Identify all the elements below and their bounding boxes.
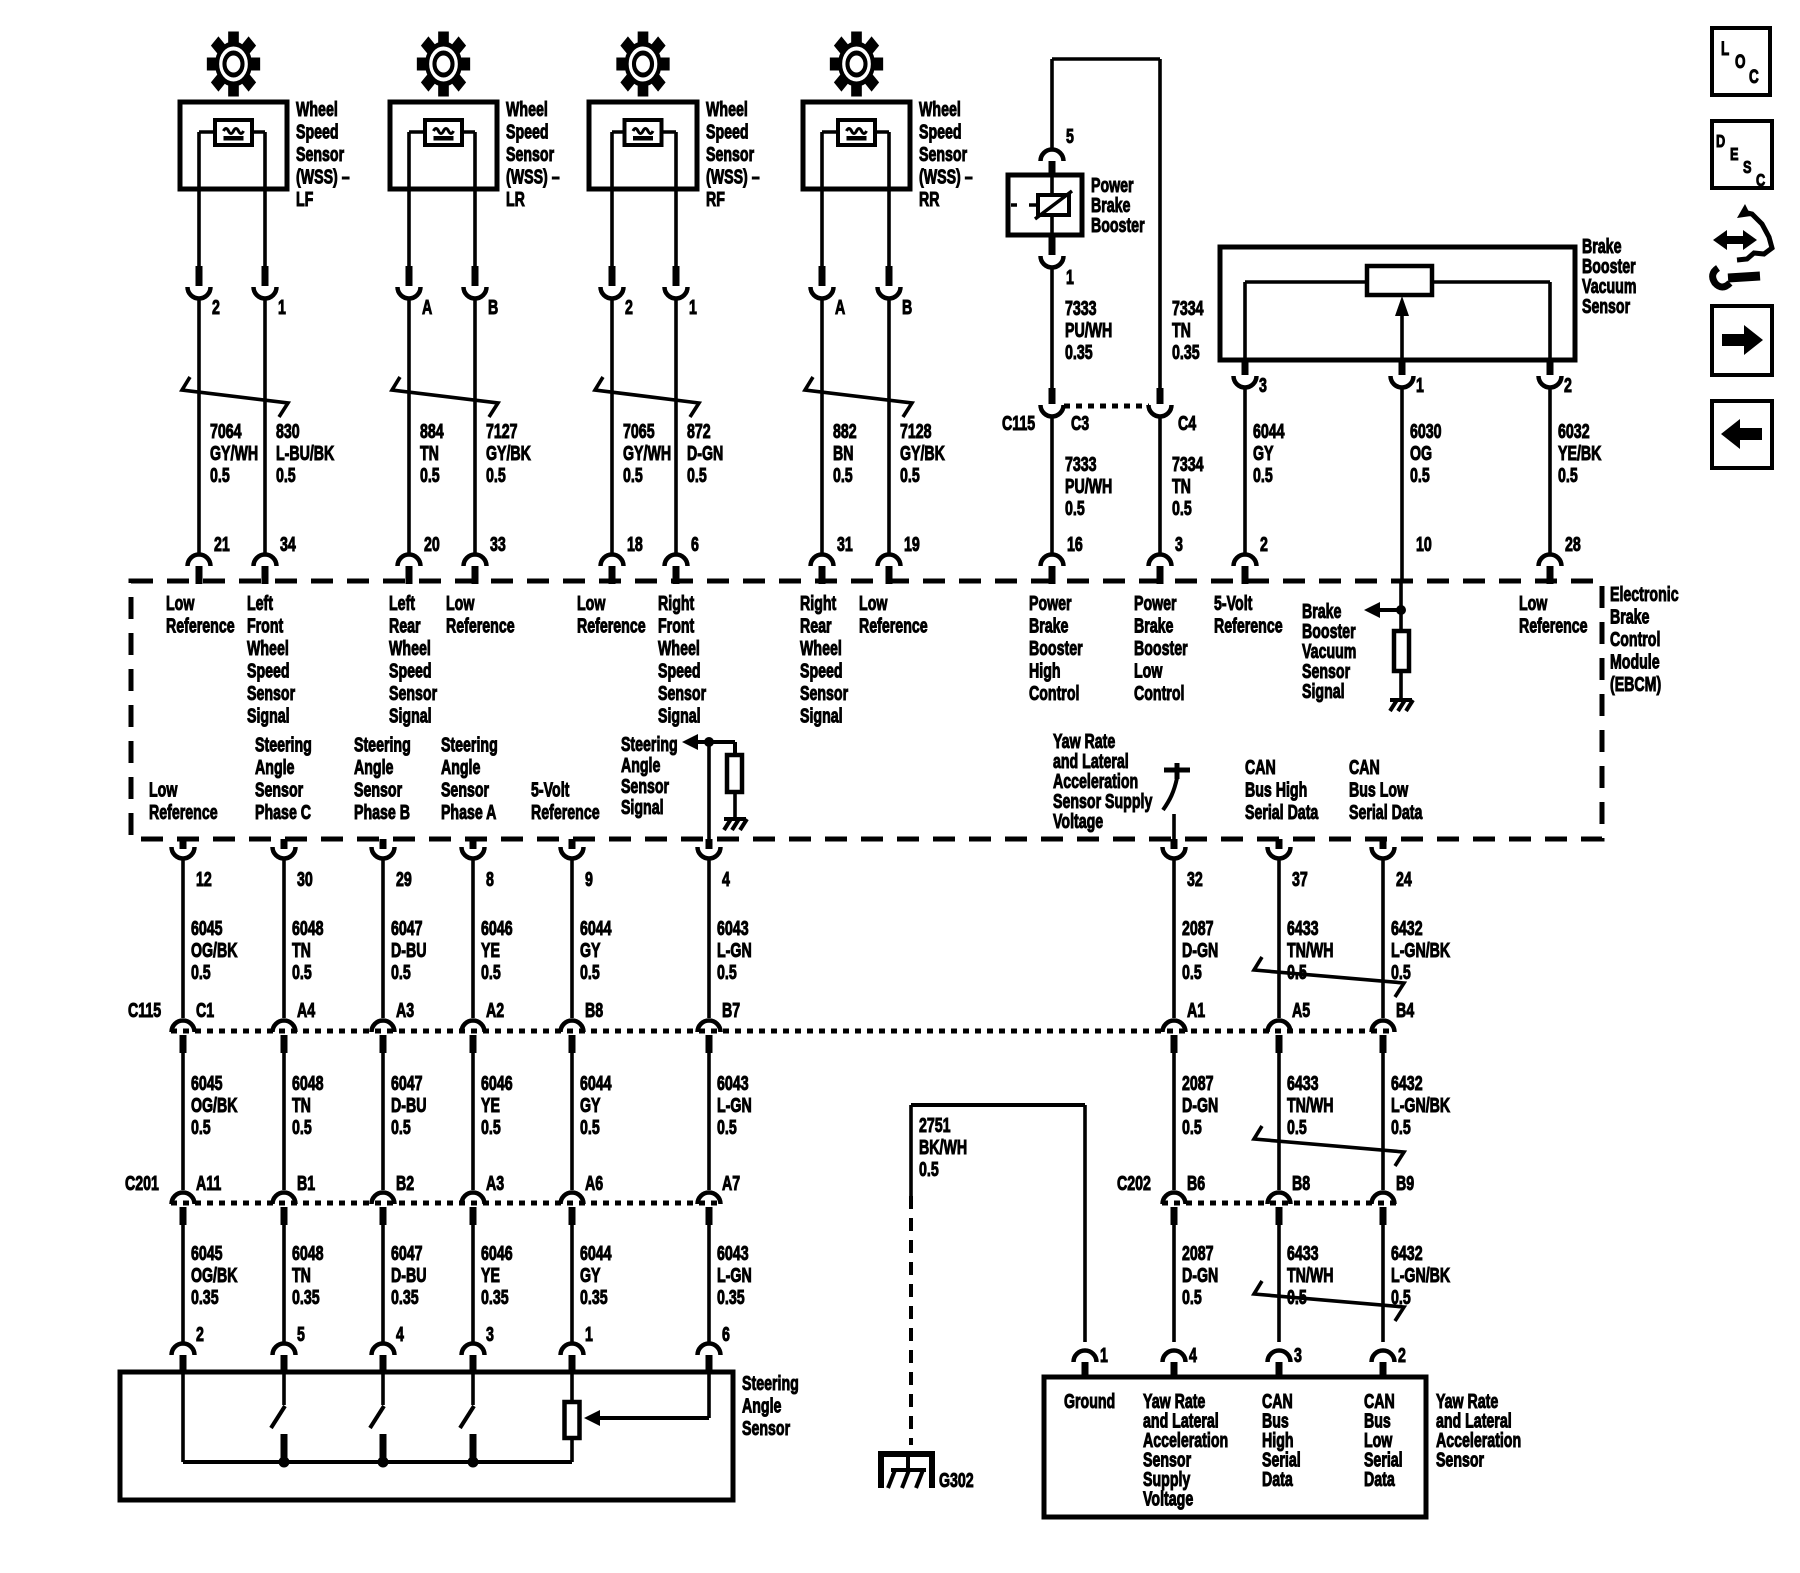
wire EBCM to C115 [570,858,574,1018]
svg-text:(WSS) –: (WSS) – [919,165,973,188]
svg-text:0.5: 0.5 [1287,1116,1307,1139]
wire C201/C202 down [570,1225,574,1342]
wire EBCM to C115 [181,858,185,1018]
svg-text:GY/BK: GY/BK [486,442,531,465]
twisted pair CAN above C115 [1254,957,1404,997]
label C201 [125,1172,159,1195]
connector C115 C3 [1041,388,1064,417]
svg-text:A3: A3 [396,999,414,1022]
svg-text:LR: LR [506,188,525,211]
svg-text:4: 4 [396,1323,404,1346]
wire C201/C202 down [1381,1225,1385,1342]
wire above booster pin 5 [1050,59,1054,149]
svg-text:B2: B2 [396,1172,414,1195]
svg-text:Control: Control [1029,682,1079,705]
connector C115 pin A2 [462,999,505,1053]
wire C201/C202 down [707,1225,711,1342]
svg-text:Right: Right [800,592,836,615]
svg-text:Brake: Brake [1029,614,1069,637]
next page icon [1712,306,1772,375]
svg-text:0.5: 0.5 [420,464,440,487]
EBCM pin 10 feed-through [1416,533,1432,556]
svg-text:0.5: 0.5 [687,464,707,487]
svg-text:6043: 6043 [717,917,749,940]
EBCM yaw rate supply switch symbol [1163,763,1190,839]
svg-text:7333: 7333 [1065,453,1097,476]
svg-text:6433: 6433 [1287,1072,1319,1095]
svg-text:1: 1 [689,296,697,319]
EBCM pin label Steering Phase C [255,733,312,824]
svg-text:TN/WH: TN/WH [1287,939,1334,962]
svg-text:L-GN/BK: L-GN/BK [1391,1094,1451,1117]
svg-text:0.5: 0.5 [1410,464,1430,487]
EBCM pin label Power Brake [1029,592,1083,705]
twisted pair symbol WSS LF [182,377,288,417]
wire C115 to C201/C202 [282,1053,286,1190]
svg-text:Left: Left [389,592,415,615]
svg-text:Speed: Speed [389,659,432,682]
EBCM top pin 31 connector [811,533,854,584]
wire label 6048 TN (row C) [292,1242,324,1309]
wire label 6433 TN/WH (row C) [1287,1242,1334,1309]
svg-text:0.5: 0.5 [292,1116,312,1139]
svg-text:Sensor: Sensor [296,143,344,166]
svg-text:7334: 7334 [1172,453,1204,476]
wire EBCM to C115 [381,858,385,1018]
svg-text:CAN: CAN [1349,756,1380,779]
svg-text:0.5: 0.5 [1391,961,1411,984]
wire label 6048 TN (row A) [292,917,324,984]
svg-text:High: High [1029,659,1061,682]
svg-text:D-BU: D-BU [391,1264,426,1287]
svg-text:882: 882 [833,420,857,443]
svg-text:6043: 6043 [717,1072,749,1095]
svg-text:TN/WH: TN/WH [1287,1094,1334,1117]
svg-text:TN: TN [292,1094,311,1117]
svg-text:21: 21 [214,533,230,556]
connector C201 pin A11 [172,1172,222,1225]
label C115 [128,999,161,1022]
power brake booster label [1091,174,1145,237]
wire from WSS RF to EBCM pin 18 [610,298,614,554]
twisted pair symbol WSS RF [595,377,699,417]
DESC icon [1712,121,1772,191]
svg-text:B: B [902,296,912,319]
svg-text:6048: 6048 [292,917,324,940]
WSS RR label [919,98,973,211]
svg-text:GY: GY [580,1094,601,1117]
svg-text:Sensor: Sensor [255,778,303,801]
svg-text:6432: 6432 [1391,917,1423,940]
connector C115 pin B8 [561,999,604,1053]
svg-text:Reference: Reference [577,614,646,637]
wire label 2087 D-GN (row C) [1182,1242,1218,1309]
wire C115 to C201/C202 [707,1053,711,1190]
svg-text:Left: Left [247,592,273,615]
svg-text:D-GN: D-GN [687,442,723,465]
svg-text:6047: 6047 [391,1072,423,1095]
svg-text:Low: Low [166,592,195,615]
svg-text:32: 32 [1187,868,1203,891]
wire C115 to C201/C202 [181,1053,185,1190]
connector C202 pin B9 [1372,1172,1415,1225]
connector C115 pin C1 [172,999,215,1053]
svg-text:CAN: CAN [1245,756,1276,779]
svg-text:0.35: 0.35 [1172,341,1200,364]
wheel speed sensor (WSS) RR [803,32,910,266]
wire label 6047 D-BU (row B) [391,1072,426,1139]
svg-text:BK/WH: BK/WH [919,1136,967,1159]
svg-text:37: 37 [1292,868,1308,891]
svg-text:Low: Low [577,592,606,615]
svg-text:Front: Front [658,614,694,637]
EBCM top pin 34 connector [254,533,297,584]
svg-text:B: B [488,296,498,319]
svg-text:6: 6 [691,533,699,556]
svg-text:28: 28 [1565,533,1581,556]
svg-text:Sensor: Sensor [1436,1448,1484,1471]
connector C115 C4 [1149,388,1172,417]
wire label 6043 L-GN (row C) [717,1242,752,1309]
svg-text:6032: 6032 [1558,420,1590,443]
svg-text:Low: Low [149,778,178,801]
svg-text:0.5: 0.5 [900,464,920,487]
svg-text:3: 3 [1175,533,1183,556]
svg-text:A7: A7 [722,1172,740,1195]
svg-text:0.5: 0.5 [191,1116,211,1139]
svg-text:B1: B1 [297,1172,315,1195]
svg-text:C201: C201 [125,1172,159,1195]
svg-text:(WSS) –: (WSS) – [506,165,560,188]
EBCM bottom pin 8 connector [462,839,495,891]
svg-text:Reference: Reference [1214,614,1283,637]
svg-text:Sensor: Sensor [742,1417,790,1440]
svg-text:0.5: 0.5 [833,464,853,487]
wire 7333 C3 to EBCM pin 16 [1050,417,1054,554]
EBCM bottom pin 37 connector [1268,839,1308,891]
svg-text:6046: 6046 [481,917,513,940]
vacuum sensor pin 1 connector [1391,360,1425,397]
EBCM label [1610,583,1679,696]
svg-text:Voltage: Voltage [1053,810,1103,833]
wire label 6048 TN (row B) [292,1072,324,1139]
svg-text:Angle: Angle [742,1394,782,1417]
svg-text:Speed: Speed [706,120,749,143]
svg-text:30: 30 [297,868,313,891]
svg-text:Voltage: Voltage [1143,1487,1193,1510]
svg-text:RR: RR [919,188,940,211]
svg-text:6433: 6433 [1287,917,1319,940]
svg-text:6030: 6030 [1410,420,1442,443]
svg-text:Wheel: Wheel [296,98,338,121]
wire 7333 booster to C3 [1050,267,1054,390]
svg-text:Sensor: Sensor [621,775,669,798]
svg-text:6044: 6044 [1253,420,1285,443]
svg-text:Angle: Angle [354,756,394,779]
svg-text:Wheel: Wheel [247,637,289,660]
svg-text:Wheel: Wheel [658,637,700,660]
svg-text:Signal: Signal [800,704,843,727]
svg-text:Reference: Reference [531,801,600,824]
svg-text:TN/WH: TN/WH [1287,1264,1334,1287]
connector C115 pin B7 [698,999,741,1053]
svg-text:Sensor: Sensor [1582,295,1630,318]
svg-text:A5: A5 [1292,999,1310,1022]
svg-text:0.5: 0.5 [580,1116,600,1139]
connector C115 pin A4 [273,999,316,1053]
svg-text:Booster: Booster [1134,637,1188,660]
EBCM top pin 6 connector [665,533,700,584]
EBCM top pin 16 connector [1041,533,1084,584]
EBCM module outline (dashed) [131,581,1602,839]
svg-text:2087: 2087 [1182,917,1214,940]
wire label 7333 PU/WH 0.35 [1065,297,1112,364]
svg-text:1: 1 [585,1323,593,1346]
svg-text:6047: 6047 [391,1242,423,1265]
EBCM steering angle sensor signal circuit [621,733,747,839]
svg-text:TN: TN [292,939,311,962]
svg-text:33: 33 [490,533,506,556]
C115 dotted harness line [171,1029,1395,1034]
wire label 6032 YE/BK [1558,420,1602,487]
svg-text:Power: Power [1134,592,1177,615]
svg-text:D-BU: D-BU [391,1094,426,1117]
svg-text:Data: Data [1364,1468,1395,1491]
svg-text:7334: 7334 [1172,297,1204,320]
svg-text:Speed: Speed [296,120,339,143]
svg-text:A: A [422,296,433,319]
svg-text:Sensor: Sensor [506,143,554,166]
EBCM pin label Low Reference [577,592,646,638]
connector C202 pin B6 [1163,1172,1206,1225]
svg-text:0.35: 0.35 [580,1286,608,1309]
label C115 (top) [1002,412,1035,435]
wire C115 to C201/C202 [1381,1053,1385,1190]
svg-text:Wheel: Wheel [389,637,431,660]
svg-text:B8: B8 [585,999,603,1022]
connector C115 pin A1 [1163,999,1206,1053]
svg-text:0.35: 0.35 [481,1286,509,1309]
svg-text:Steering: Steering [742,1372,799,1395]
svg-text:1: 1 [278,296,286,319]
C201 dotted harness line [171,1201,721,1206]
svg-text:34: 34 [280,533,296,556]
svg-text:6045: 6045 [191,1242,223,1265]
EBCM pin label Left Front [247,592,295,728]
svg-text:B6: B6 [1187,1172,1205,1195]
svg-text:Rear: Rear [800,614,832,637]
booster pin 1 connector [1041,235,1075,289]
wire from WSS LF to EBCM pin 21 [197,298,201,554]
connector C115 pin A5 [1268,999,1311,1053]
svg-text:C115: C115 [128,999,161,1022]
svg-text:Signal: Signal [621,796,664,819]
svg-text:GY: GY [580,1264,601,1287]
EBCM pin label Steering Phase B [354,733,411,824]
wire from WSS RR to EBCM pin 31 [820,298,824,554]
wire label 6043 L-GN (row A) [717,917,752,984]
svg-text:L-GN: L-GN [717,939,752,962]
svg-text:Steering: Steering [354,733,411,756]
svg-text:GY: GY [1253,442,1274,465]
wire label 830 L-BU/BK [276,420,335,487]
svg-text:GY/BK: GY/BK [900,442,945,465]
svg-text:TN: TN [1172,319,1191,342]
svg-text:16: 16 [1067,533,1083,556]
svg-text:0.5: 0.5 [481,1116,501,1139]
svg-text:0.5: 0.5 [717,961,737,984]
wire label 872 D-GN [687,420,723,487]
svg-text:Speed: Speed [658,659,701,682]
wire label 6433 TN/WH (row A) [1287,917,1334,984]
svg-text:Control: Control [1134,682,1184,705]
wire C201/C202 down [471,1225,475,1342]
svg-text:L-GN: L-GN [717,1264,752,1287]
svg-text:6044: 6044 [580,917,612,940]
svg-text:Brake: Brake [1134,614,1174,637]
EBCM pin label Power Brake [1134,592,1188,705]
svg-text:Booster: Booster [1091,214,1145,237]
svg-text:0.35: 0.35 [717,1286,745,1309]
svg-text:E: E [1730,145,1739,165]
EBCM top pin 18 connector [601,533,644,584]
wire label 6047 D-BU (row C) [391,1242,426,1309]
svg-text:6432: 6432 [1391,1242,1423,1265]
WSS LR pin A connector [398,266,433,319]
svg-text:0.35: 0.35 [1065,341,1093,364]
svg-text:6045: 6045 [191,917,223,940]
svg-text:Signal: Signal [1302,680,1345,703]
wire C201/C202 down [181,1225,185,1342]
svg-text:8: 8 [486,868,494,891]
wire from vacuum sensor pin 2 [1548,387,1552,554]
label C202 [1117,1172,1151,1195]
wire label 7334 TN 0.5 [1172,453,1204,520]
wire label 6047 D-BU (row A) [391,917,426,984]
WSS LF label [296,98,350,211]
steering angle sensor box [120,1372,733,1500]
svg-text:6: 6 [722,1323,730,1346]
svg-text:D-GN: D-GN [1182,1094,1218,1117]
svg-text:Angle: Angle [441,756,481,779]
svg-text:Sensor: Sensor [706,143,754,166]
EBCM pin label 5-Volt Reference [531,778,600,824]
svg-text:L-GN/BK: L-GN/BK [1391,939,1451,962]
svg-text:YE: YE [481,1264,500,1287]
svg-text:Angle: Angle [255,756,295,779]
yaw rate sensor label [1436,1390,1521,1472]
svg-text:O: O [1735,52,1746,73]
svg-text:Control: Control [1610,628,1660,651]
wire 2751 BK/WH to G302 [911,1105,1085,1445]
svg-text:Speed: Speed [247,659,290,682]
svg-text:B4: B4 [1396,999,1414,1022]
svg-text:0.5: 0.5 [1065,497,1085,520]
svg-text:Brake: Brake [1610,605,1650,628]
EBCM bottom pin 4 connector [698,839,731,891]
svg-text:0.5: 0.5 [481,961,501,984]
wire label 6044 GY (row A) [580,917,612,984]
wire from vacuum sensor pin 1 [1400,387,1404,581]
svg-text:TN: TN [420,442,439,465]
svg-text:3: 3 [1294,1344,1302,1367]
previous page icon [1712,401,1772,468]
svg-text:2751: 2751 [919,1114,951,1137]
svg-text:C: C [1749,67,1759,88]
EBCM pin label Steering Phase A [441,733,498,824]
connector C201 pin A6 [561,1172,604,1225]
wire EBCM to C115 [1277,858,1281,1018]
wire C115 to C201/C202 [471,1053,475,1190]
svg-text:D-BU: D-BU [391,939,426,962]
wire label 6044 GY (row C) [580,1242,612,1309]
wire label 6046 YE (row C) [481,1242,513,1309]
wire C115 to C201/C202 [1172,1053,1176,1190]
wire label 6432 L-GN/BK (row B) [1391,1072,1451,1139]
svg-text:Angle: Angle [621,754,661,777]
wire label 6044 GY (row B) [580,1072,612,1139]
svg-text:0.35: 0.35 [391,1286,419,1309]
wire label 7065 GY/WH [623,420,671,487]
svg-text:0.5: 0.5 [391,961,411,984]
svg-text:0.5: 0.5 [1391,1116,1411,1139]
svg-text:7128: 7128 [900,420,932,443]
wire label 884 TN [420,420,444,487]
wire label 6046 YE (row A) [481,917,513,984]
wire 7334 C4 to EBCM pin 3 [1158,417,1162,554]
svg-text:24: 24 [1396,868,1412,891]
yaw rate and lateral acceleration sensor box [1044,1377,1426,1517]
wire label 882 BN [833,420,857,487]
svg-text:Wheel: Wheel [506,98,548,121]
svg-text:10: 10 [1416,533,1432,556]
svg-text:0.5: 0.5 [580,961,600,984]
svg-text:0.5: 0.5 [717,1116,737,1139]
EBCM pin label 5-Volt Reference [1214,592,1283,638]
wire EBCM to C115 [707,858,711,1018]
power brake booster box [1008,175,1082,235]
WSS LF pin 2 connector [188,266,220,319]
svg-text:Booster: Booster [1029,637,1083,660]
EBCM pin label Right Rear [800,592,848,728]
svg-text:2: 2 [196,1323,204,1346]
svg-text:Speed: Speed [919,120,962,143]
svg-text:Sensor: Sensor [389,682,437,705]
wire C201/C202 down [381,1225,385,1342]
EBCM brake booster vacuum sensor signal input circuit [1302,581,1413,711]
svg-text:0.35: 0.35 [292,1286,320,1309]
svg-text:6047: 6047 [391,917,423,940]
ground G302 [881,1454,974,1492]
svg-text:G302: G302 [939,1469,974,1492]
connector C201 pin B1 [273,1172,316,1225]
EBCM pin label Low Reference [166,592,235,638]
EBCM top pin 19 connector [878,533,920,584]
svg-text:Low: Low [859,592,888,615]
svg-text:0.5: 0.5 [1182,961,1202,984]
wire label 7128 GY/BK [900,420,945,487]
svg-text:Signal: Signal [247,704,290,727]
svg-text:6043: 6043 [717,1242,749,1265]
svg-text:B8: B8 [1292,1172,1310,1195]
wire label 6045 OG/BK (row A) [191,917,238,984]
svg-text:Bus High: Bus High [1245,778,1307,801]
wire C201/C202 down [1277,1225,1281,1342]
svg-text:TN: TN [1172,475,1191,498]
svg-text:31: 31 [837,533,853,556]
svg-text:2087: 2087 [1182,1072,1214,1095]
EBCM pin label Low Reference [446,592,515,638]
